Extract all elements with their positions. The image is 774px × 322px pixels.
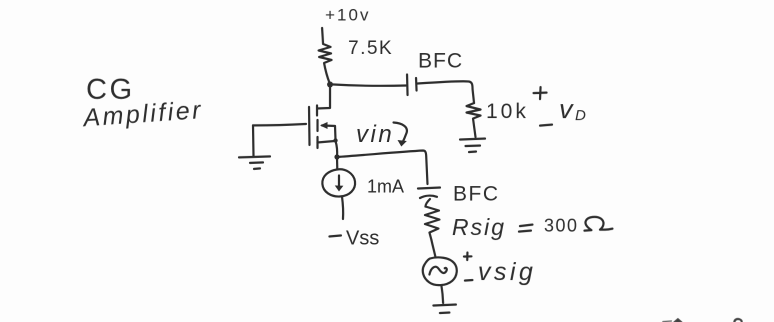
svg-text:Rsig: Rsig <box>452 214 506 240</box>
svg-text:BFC: BFC <box>418 50 463 73</box>
svg-text:300: 300 <box>544 216 579 236</box>
wire: Rsig to vsig source <box>431 240 435 257</box>
resistor Rsig <box>425 207 440 241</box>
capacitor C2 (BFC, input coupling) <box>418 188 440 189</box>
svg-text:10k: 10k <box>486 100 529 123</box>
wire: source lead down to node <box>336 141 338 157</box>
stray mark (next-line letter top, bottom edge 2) <box>734 319 741 322</box>
svg-text:BFC: BFC <box>453 183 500 206</box>
label - (output) <box>540 125 552 126</box>
stray mark (next-line letter top, bottom edge) <box>663 320 672 322</box>
label + (vsig) <box>464 253 472 261</box>
ground (gate) <box>239 156 270 157</box>
wire: cap C1 to load resistor <box>418 81 475 103</box>
wire: current source to -Vss <box>342 196 343 219</box>
ground (vsig) <box>433 305 456 306</box>
label + (output) <box>534 87 547 99</box>
svg-text:vsig: vsig <box>478 258 536 286</box>
label - (vsig) <box>465 279 473 282</box>
wire: gate lead <box>253 124 306 126</box>
wire: drain node to coupling cap <box>333 84 406 85</box>
wire: C2 to Rsig <box>425 199 430 207</box>
current source I1 (1mA) <box>322 169 355 196</box>
node: drain junction dot <box>327 81 333 87</box>
arrow: vin sense (curved) <box>394 123 407 144</box>
label -Vss <box>329 235 341 236</box>
wire: source node down to current source <box>336 157 339 169</box>
wire: gate to ground <box>252 125 255 156</box>
source V_sig (sine) <box>423 257 457 285</box>
svg-text:vin: vin <box>356 121 394 148</box>
resistor R_L 10k <box>467 103 481 137</box>
resistor R_D 7.5K <box>319 28 332 83</box>
svg-text:+10v: +10v <box>325 5 370 24</box>
svg-text:1mA: 1mA <box>367 176 404 196</box>
wire: source node to C2 <box>337 150 428 184</box>
node: source junction dot <box>334 154 339 159</box>
svg-text:7.5K: 7.5K <box>348 38 393 59</box>
svg-text:Vss: Vss <box>346 227 379 249</box>
transistor Q1 (NMOS, common gate) <box>308 107 311 145</box>
svg-text:v: v <box>559 94 574 124</box>
wire: vsig to ground <box>441 286 443 304</box>
capacitor C1 (BFC, output coupling) <box>406 75 409 96</box>
ground (under 10k) <box>460 139 485 140</box>
svg-text:D: D <box>575 107 586 124</box>
